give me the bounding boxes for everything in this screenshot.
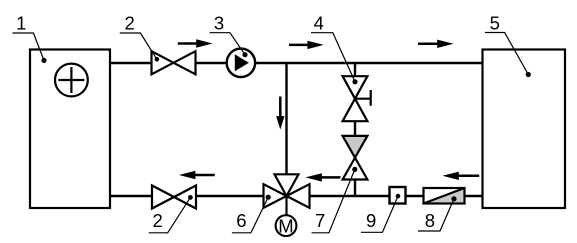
three-way mixing valve 6: right triangle: [287, 184, 310, 208]
meter 9 (small square): [390, 187, 406, 204]
heat source box 1: [30, 50, 110, 209]
filter 8 (rect with diagonal, lower half gray): [424, 188, 465, 204]
svg-text:9: 9: [366, 210, 376, 231]
label 1: [13, 12, 47, 63]
wire: bottom pipe meter 9 to filter 8: [405, 195, 424, 197]
balancing valve 4 (vertical bowtie): [343, 76, 368, 121]
wire: bottom pipe box1 to valve 2 lower: [109, 195, 152, 197]
flow arrow on top pipe after junction (right): [289, 41, 324, 49]
wire: top pipe valve 2 to pump 3: [196, 62, 228, 64]
label 3: [210, 12, 248, 57]
wire: stub between valve 4 and check valve 7: [354, 121, 356, 137]
flow arrow above valve 2 lower (left): [179, 171, 215, 179]
valve 4 stem handle: [356, 90, 371, 106]
wire: vertical drop from top pipe to three-way valve 6: [285, 63, 287, 175]
label 2 (bottom): [149, 195, 193, 233]
flow arrow above valve 2 (right): [178, 39, 213, 47]
wire: bottom pipe valve 2 lower to three-way valve 6: [196, 195, 264, 197]
pump 3 (circle with filled triangle): [227, 49, 255, 77]
flow arrow above filter 8 (left): [442, 172, 479, 180]
svg-text:2: 2: [153, 210, 163, 231]
wire: top pipe box1 to valve 2: [109, 62, 151, 64]
svg-text:6: 6: [236, 210, 246, 231]
wire: bottom pipe filter 8 to box 5: [464, 195, 484, 197]
svg-text:2: 2: [125, 12, 135, 33]
label 4: [311, 12, 358, 84]
heat generator symbol (circle with plus) inside box 1: [55, 64, 88, 97]
label 2 (top): [120, 12, 159, 61]
wire: bypass stub top pipe to valve 4: [354, 63, 356, 77]
svg-text:8: 8: [425, 210, 435, 231]
three-way mixing valve 6: top triangle: [275, 174, 299, 196]
three-way mixing valve 6: left triangle: [264, 184, 287, 208]
flow arrow between valve 6 and valve 7 (left): [305, 173, 340, 181]
check valve 7 lower white triangle: [343, 158, 368, 180]
svg-text:4: 4: [314, 12, 324, 33]
label 5: [485, 12, 531, 77]
check valve 7 upper gray triangle: [343, 136, 368, 158]
wire: bottom pipe three-way valve 6 to meter 9: [309, 195, 390, 197]
wire: stub check valve 7 to bottom pipe: [354, 180, 356, 197]
down arrow on vertical drop: [276, 97, 284, 130]
label 7: [312, 167, 358, 233]
wire: top pipe pump 3 to box 5: [255, 62, 484, 64]
svg-text:7: 7: [315, 210, 325, 231]
svg-text:3: 3: [214, 12, 224, 33]
label 9: [361, 194, 400, 233]
label 6: [232, 195, 271, 233]
motor actuator circle with M: [276, 215, 297, 236]
motor actuator stem of valve 6: [285, 196, 287, 215]
svg-text:M: M: [278, 215, 293, 236]
shut-off valve 2 lower (bowtie): [152, 186, 196, 209]
svg-text:1: 1: [16, 12, 26, 33]
shut-off valve 2 (top): [152, 51, 196, 74]
svg-text:5: 5: [490, 12, 500, 33]
consumer box 5: [483, 50, 566, 209]
label 8: [418, 196, 457, 231]
flow arrow before box 5 (right): [418, 40, 454, 48]
